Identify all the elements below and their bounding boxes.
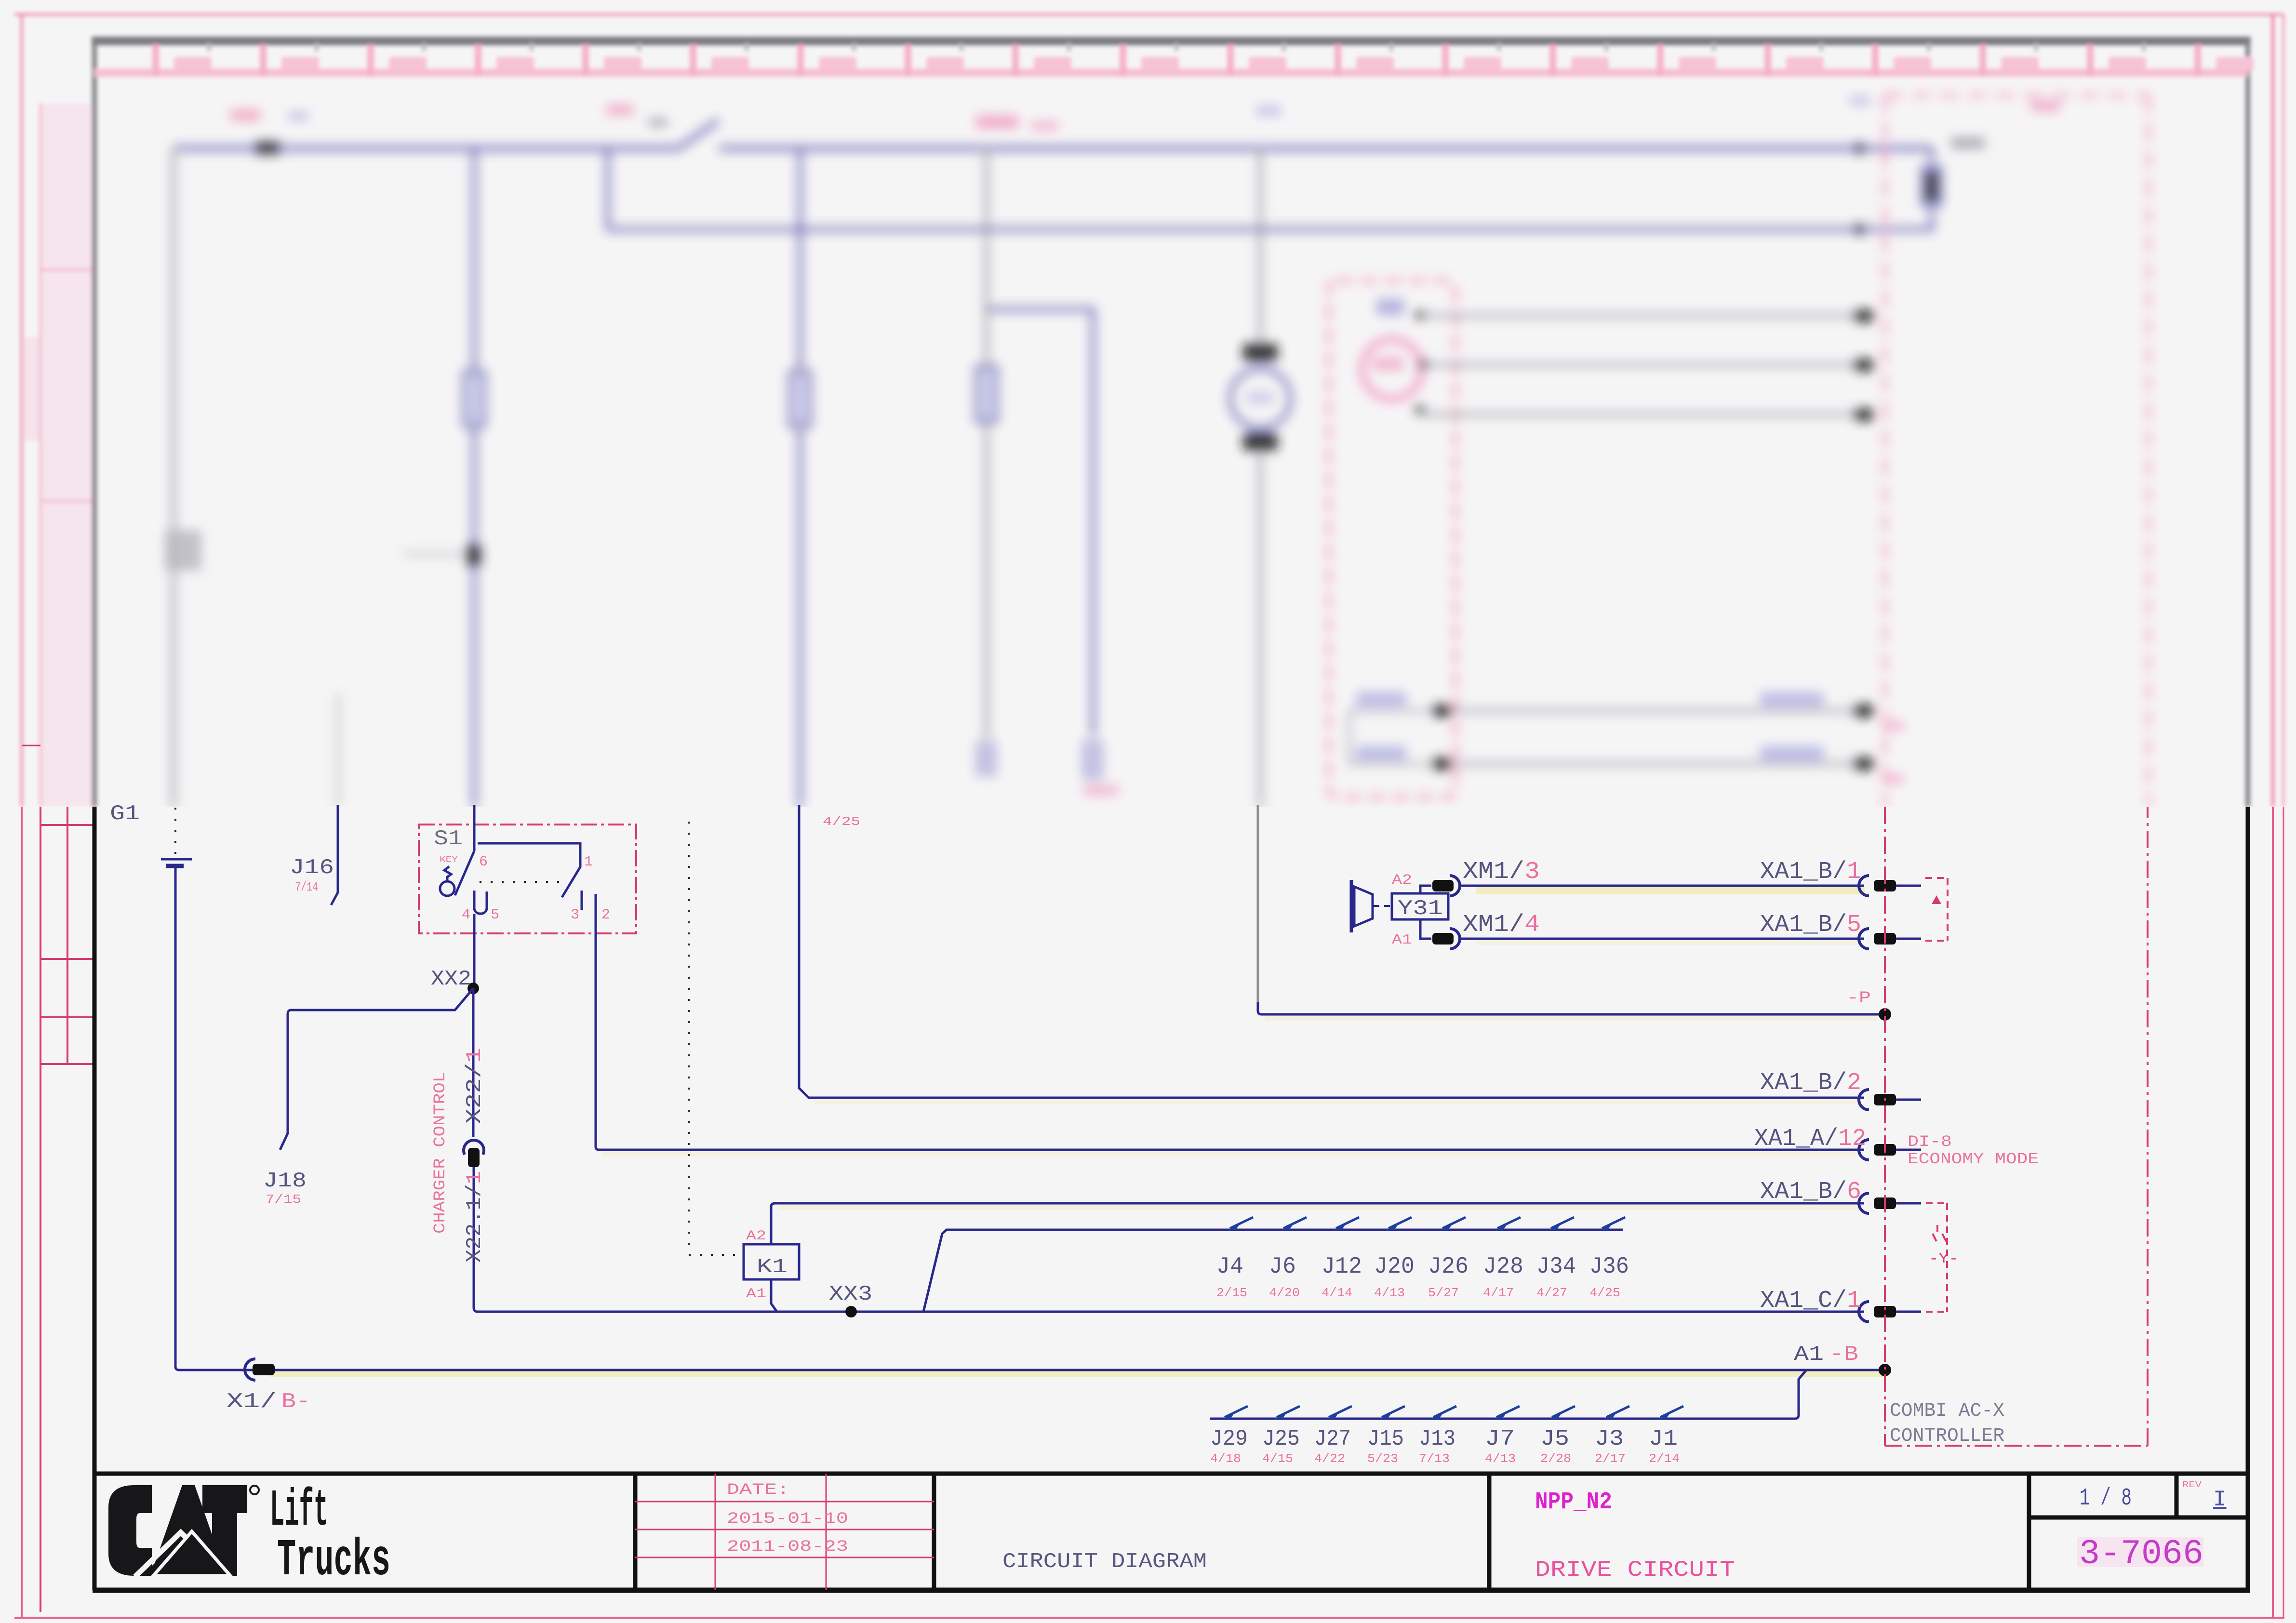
svg-text:I: I xyxy=(2213,1487,2227,1512)
svg-text:KEY: KEY xyxy=(440,855,458,865)
svg-text:J1: J1 xyxy=(1649,1426,1678,1451)
svg-text:5/27: 5/27 xyxy=(1428,1286,1459,1300)
S1 key switch box xyxy=(419,825,636,933)
svg-text:DRIVE CIRCUIT: DRIVE CIRCUIT xyxy=(1535,1557,1735,1583)
svg-text:G1: G1 xyxy=(110,802,140,826)
svg-text:2011-08-23: 2011-08-23 xyxy=(727,1538,848,1556)
svg-text:COMBI AC-X: COMBI AC-X xyxy=(1890,1400,2004,1422)
dotted linkage xyxy=(689,822,742,1255)
svg-text:XA1_A/: XA1_A/ xyxy=(1754,1125,1838,1153)
wire S1 pin2 to XA1_A/12 xyxy=(596,1147,1864,1150)
svg-text:1: 1 xyxy=(1847,1287,1861,1315)
svg-text:5: 5 xyxy=(1847,911,1861,939)
svg-text:4/18: 4/18 xyxy=(1210,1451,1241,1466)
svg-text:J20: J20 xyxy=(1374,1254,1415,1280)
svg-text:XM1/4: XM1/4 xyxy=(1463,911,1540,939)
svg-text:A2: A2 xyxy=(746,1229,766,1244)
svg-text:2/15: 2/15 xyxy=(1216,1286,1247,1300)
svg-text:J27: J27 xyxy=(1314,1426,1351,1451)
svg-text:Trucks: Trucks xyxy=(277,1531,390,1590)
svg-text:J18: J18 xyxy=(263,1169,307,1193)
pink dashed aux box xyxy=(1329,280,1455,798)
XX3 wire xyxy=(478,1311,1864,1313)
svg-text:J25: J25 xyxy=(1262,1426,1300,1451)
svg-text:B-: B- xyxy=(281,1390,310,1414)
svg-text:A2: A2 xyxy=(1392,872,1412,889)
svg-text:7/14: 7/14 xyxy=(295,880,318,894)
SHARP-LAYER xyxy=(14,745,2284,1618)
pink bracket Y (B/6-C/1) xyxy=(1926,1203,1947,1312)
svg-text:X22/1: X22/1 xyxy=(463,1048,487,1124)
svg-text:4/14: 4/14 xyxy=(1322,1286,1352,1300)
svg-text:J16: J16 xyxy=(290,856,334,880)
svg-text:J3: J3 xyxy=(1595,1426,1624,1451)
3-7066 xyxy=(2077,1537,2203,1567)
svg-text:4/22: 4/22 xyxy=(1314,1451,1345,1466)
svg-text:4/13: 4/13 xyxy=(1485,1451,1516,1466)
K1 relay coil xyxy=(744,1244,799,1279)
svg-text:XA1_B/: XA1_B/ xyxy=(1760,858,1847,886)
svg-text:4/20: 4/20 xyxy=(1269,1286,1300,1300)
svg-text:J28: J28 xyxy=(1483,1254,1523,1280)
CAT logo xyxy=(108,1485,247,1576)
svg-text:5/23: 5/23 xyxy=(1367,1451,1398,1466)
drawing frame xyxy=(93,807,97,1590)
svg-text:2/14: 2/14 xyxy=(1649,1451,1680,1466)
XM1/3 connector xyxy=(1432,880,1454,891)
svg-text:1: 1 xyxy=(1847,858,1861,886)
pink circle device xyxy=(1362,339,1422,399)
pink bracket A (XM1 horn aid) xyxy=(1925,878,1948,941)
vertical: S1 pin6 feed with fuse + connector xyxy=(472,148,476,808)
lower J row wire with jog xyxy=(1210,1370,1806,1419)
svg-text:DI-8: DI-8 xyxy=(1908,1133,1952,1151)
svg-text:Y31: Y31 xyxy=(1398,897,1443,921)
svg-text:3: 3 xyxy=(571,907,579,923)
Y31 horn symbol xyxy=(1350,880,1353,932)
svg-text:J6: J6 xyxy=(1269,1254,1296,1280)
svg-text:J29: J29 xyxy=(1210,1426,1248,1451)
vertical: battery feed xyxy=(172,148,175,808)
svg-text:5: 5 xyxy=(491,907,499,923)
A1-B wire from battery xyxy=(175,1367,1885,1370)
Y31 leads xyxy=(1420,886,1431,939)
J18 branch xyxy=(280,988,473,1150)
svg-text:4/13: 4/13 xyxy=(1374,1286,1405,1300)
svg-text:J5: J5 xyxy=(1540,1426,1569,1451)
J16 stub xyxy=(331,805,338,905)
svg-text:4/25: 4/25 xyxy=(823,814,860,829)
svg-text:3-7066: 3-7066 xyxy=(2079,1534,2203,1574)
connector XA1 XA1_C/1 xyxy=(1859,1302,1869,1322)
battery disconnect blade xyxy=(679,120,718,148)
svg-text:6: 6 xyxy=(479,854,488,870)
main bus bar xyxy=(174,146,1932,151)
svg-text:2/17: 2/17 xyxy=(1595,1451,1626,1466)
motor M and its feed xyxy=(1258,148,1262,347)
X1/B- connector xyxy=(245,1359,255,1380)
-P wire xyxy=(1257,805,1259,1002)
svg-text:K1: K1 xyxy=(757,1255,788,1278)
svg-text:4/17: 4/17 xyxy=(1483,1286,1514,1300)
outer pink border sharp xyxy=(14,807,2284,1618)
svg-text:J13: J13 xyxy=(1419,1426,1455,1451)
svg-text:CONTROLLER: CONTROLLER xyxy=(1890,1425,2004,1447)
S1 coupling dots xyxy=(480,881,561,883)
top drawing frame band (gray, blurred) xyxy=(92,37,2251,45)
key symbol xyxy=(440,881,454,896)
right end of bus loop xyxy=(608,148,1932,229)
vertical pair x2047/x2268 with fuse and connector blobs xyxy=(985,148,988,740)
svg-text:J12: J12 xyxy=(1322,1254,1362,1280)
left margin pale band (blurred) xyxy=(41,104,93,807)
J4-J36 branch arrow ticks xyxy=(1230,1217,1625,1228)
J4..J36 branch wire xyxy=(923,1230,1623,1312)
S1 pole 2: pin1 blade, pin3 stub, pin2 xyxy=(478,843,580,897)
svg-text:7/13: 7/13 xyxy=(1419,1451,1450,1466)
yellow highlighter xyxy=(270,1370,1884,1377)
outer pink page border (top, blurred) xyxy=(14,13,2283,15)
Y31 box xyxy=(1392,893,1448,919)
three gray wires to controller xyxy=(1421,316,1870,414)
svg-text:XM1/3: XM1/3 xyxy=(1463,858,1540,886)
fuse blob on bus xyxy=(255,142,280,154)
svg-text:XA1_B/: XA1_B/ xyxy=(1760,911,1847,939)
svg-text:-Y-: -Y- xyxy=(1929,1251,1959,1267)
svg-text:1 / 8: 1 / 8 xyxy=(2080,1485,2132,1512)
svg-text:-B: -B xyxy=(1829,1343,1858,1367)
X22/1 connector xyxy=(472,988,475,1137)
svg-text:XA1_B/: XA1_B/ xyxy=(1760,1069,1847,1097)
connector XA1 XA1_B/1 xyxy=(1859,876,1869,896)
svg-text:CHARGER CONTROL: CHARGER CONTROL xyxy=(431,1072,450,1234)
vertical: XA1_B/2 feed with fuse xyxy=(798,148,802,808)
svg-text:X1/: X1/ xyxy=(227,1390,277,1414)
svg-text:J36: J36 xyxy=(1589,1254,1629,1280)
svg-text:J4: J4 xyxy=(1216,1254,1243,1280)
svg-text:XA1_C/: XA1_C/ xyxy=(1760,1287,1847,1315)
svg-text:J15: J15 xyxy=(1367,1426,1404,1451)
svg-text:REV: REV xyxy=(2182,1480,2202,1490)
svg-text:A1: A1 xyxy=(1794,1343,1824,1367)
svg-text:XA1_B/: XA1_B/ xyxy=(1760,1178,1847,1206)
svg-text:2: 2 xyxy=(601,907,610,923)
scattered blurred labels above bus xyxy=(230,110,260,120)
svg-text:S1: S1 xyxy=(434,827,463,851)
S1 pole 1: pin6 blade, pins 4/5 xyxy=(473,805,476,851)
svg-text:DATE:: DATE: xyxy=(727,1481,789,1499)
svg-text:XX3: XX3 xyxy=(829,1282,872,1306)
svg-text:6: 6 xyxy=(1847,1178,1861,1206)
wire XA1_B/2 xyxy=(799,805,1864,1098)
connector XA1 XA1_B/6 xyxy=(1859,1193,1869,1213)
svg-text:NPP_N2: NPP_N2 xyxy=(1535,1489,1612,1516)
left margin revision lines xyxy=(40,807,41,1612)
pink grid in date cell xyxy=(715,1474,826,1590)
vertical: J16 feed xyxy=(337,694,339,808)
XX2 node xyxy=(467,983,479,994)
svg-text:XX2: XX2 xyxy=(431,967,471,991)
BLUR-LAYER xyxy=(14,14,2283,808)
controller dash-dot boundary xyxy=(1885,807,2148,1446)
svg-text:4: 4 xyxy=(462,907,470,923)
svg-text:X22.1/1: X22.1/1 xyxy=(463,1171,487,1263)
connector XA1 XA1_A/12 xyxy=(1859,1140,1869,1160)
svg-text:2: 2 xyxy=(1847,1069,1861,1097)
svg-text:7/15: 7/15 xyxy=(266,1192,301,1207)
svg-text:ECONOMY MODE: ECONOMY MODE xyxy=(1908,1150,2039,1168)
svg-text:J26: J26 xyxy=(1428,1254,1468,1280)
svg-text:A1: A1 xyxy=(746,1287,766,1302)
connector XA1 XA1_B/5 xyxy=(1859,929,1869,949)
svg-text:2015-01-10: 2015-01-10 xyxy=(727,1510,848,1528)
XM1/4 connector xyxy=(1432,933,1454,945)
svg-text:2/28: 2/28 xyxy=(1540,1451,1571,1466)
svg-text:12: 12 xyxy=(1838,1125,1866,1153)
svg-text:J34: J34 xyxy=(1536,1254,1576,1280)
svg-text:4/15: 4/15 xyxy=(1262,1451,1293,1466)
J29-J1 branch arrow ticks xyxy=(1225,1406,1683,1417)
svg-text:-P: -P xyxy=(1847,989,1871,1008)
svg-text:4/27: 4/27 xyxy=(1536,1286,1567,1300)
controller dashed boundary (blurred top) xyxy=(1885,94,2149,807)
connector XA1 XA1_B/2 xyxy=(1859,1090,1869,1110)
ruler strip: pink ticks + bottom rule xyxy=(94,69,2248,77)
title block dividers xyxy=(635,1474,2029,1590)
svg-text:A1: A1 xyxy=(1392,932,1412,948)
svg-text:1: 1 xyxy=(584,854,593,870)
two lower device wires (blurred connectors) xyxy=(1451,711,1870,764)
svg-text:J7: J7 xyxy=(1485,1426,1515,1451)
svg-text:4/25: 4/25 xyxy=(1589,1286,1620,1300)
svg-text:CIRCUIT DIAGRAM: CIRCUIT DIAGRAM xyxy=(1002,1550,1207,1574)
